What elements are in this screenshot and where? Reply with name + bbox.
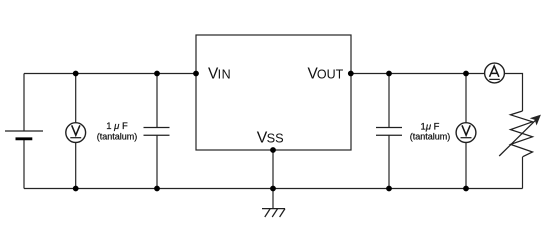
wire: battery bottom lead	[23, 139, 25, 189]
node: top rail V2 junction	[463, 71, 469, 77]
wire: ammeter to right corner	[505, 74, 523, 112]
wire: voltmeter V1 top lead	[75, 74, 77, 123]
node: bottom rail C2 junction	[386, 186, 392, 192]
ammeter A1	[485, 63, 505, 83]
wire: VSS lead to ground rail	[272, 150, 274, 189]
node: VSS pin	[270, 147, 276, 153]
node: bottom rail ground junction	[270, 186, 276, 192]
wire: load resistor bottom lead	[522, 157, 524, 189]
node: bottom rail C1 junction	[154, 186, 160, 192]
node: bottom rail V1 junction	[73, 186, 79, 192]
pin label VSS	[257, 129, 284, 146]
svg-text:(tantalum): (tantalum)	[97, 131, 138, 141]
capacitor C1	[144, 128, 170, 136]
node: top rail C1 junction	[154, 71, 160, 77]
regulator U1 box	[196, 35, 351, 150]
wire: voltmeter V2 bottom lead	[465, 143, 467, 189]
wire: top-left rail	[24, 73, 196, 75]
voltmeter V1	[66, 123, 86, 143]
node: VIN pin	[193, 71, 199, 77]
svg-text:(tantalum): (tantalum)	[410, 132, 451, 142]
wire: bottom rail	[24, 188, 523, 190]
voltmeter V2	[456, 123, 476, 143]
wire: voltmeter V2 top lead	[465, 74, 467, 123]
node: VOUT pin	[348, 71, 354, 77]
battery BT1	[5, 131, 43, 139]
svg-text:SS: SS	[267, 130, 284, 145]
node: top rail V1 junction	[73, 71, 79, 77]
ground symbol	[262, 189, 285, 218]
wire: voltmeter V1 bottom lead	[75, 143, 77, 189]
variable load resistor R1	[499, 111, 540, 157]
pin label VOUT	[308, 66, 344, 83]
svg-text:OUT: OUT	[317, 68, 344, 82]
wire: capacitor C2 bottom lead	[388, 135, 390, 188]
svg-text:IN: IN	[218, 68, 232, 82]
wire: capacitor C1 top lead	[156, 74, 158, 128]
wire: left side battery top lead	[23, 74, 25, 131]
capacitor C2	[376, 128, 402, 136]
pin label VIN	[208, 66, 231, 83]
wire: VOUT rail to ammeter	[351, 73, 485, 75]
node: bottom rail V2 junction	[463, 186, 469, 192]
wire: capacitor C2 top lead	[388, 74, 390, 128]
node: top rail C2 junction	[386, 71, 392, 77]
wire: capacitor C1 bottom lead	[156, 135, 158, 188]
